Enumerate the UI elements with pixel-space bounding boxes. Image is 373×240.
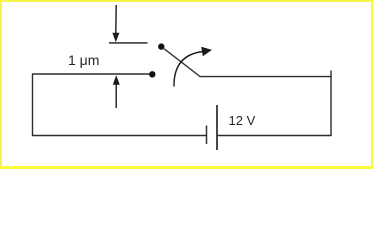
- dimension arrow (up) below gap: [113, 75, 120, 108]
- wire: bottom right (from battery positive plate): [217, 135, 331, 137]
- switch S1 blade: [164, 49, 200, 77]
- wire: left vertical: [32, 73, 34, 136]
- dimension arrow (down) above gap: [112, 5, 119, 42]
- label: battery value 12 V: [229, 113, 256, 128]
- battery V1 negative plate (short): [206, 126, 208, 145]
- switch S1 upper contact dot: [158, 43, 164, 49]
- wire: right vertical: [330, 71, 332, 137]
- wire: top-right horizontal (switch pivot lead): [200, 76, 332, 78]
- wire: top-left horizontal (left plate lead): [33, 73, 150, 75]
- label: 1 um gap value: [68, 52, 99, 68]
- switch S1 lower contact dot: [149, 71, 155, 77]
- decorative yellow page border: [0, 0, 373, 169]
- upper plate surface line of 1 um gap: [109, 42, 148, 44]
- switch motion arc arrow: [174, 47, 212, 87]
- battery V1 positive plate (long): [216, 105, 218, 150]
- wire: bottom left (to battery negative plate): [32, 135, 207, 137]
